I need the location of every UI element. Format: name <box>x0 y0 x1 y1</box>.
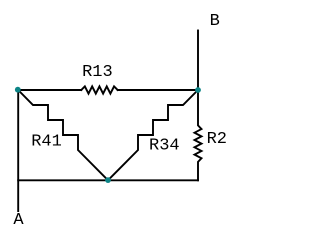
resistor R2 <box>195 90 202 180</box>
node junction dot bottom <box>105 177 111 183</box>
node junction dot right <box>195 87 201 93</box>
svg-text:A: A <box>13 211 24 230</box>
node junction dot left <box>15 87 21 93</box>
resistor R41 <box>18 90 108 180</box>
svg-text:R41: R41 <box>31 133 62 152</box>
svg-text:B: B <box>210 12 220 31</box>
svg-text:R34: R34 <box>149 137 180 156</box>
wire top left (node A1 to R13) <box>18 89 81 91</box>
wire top right (R13 to node B1) <box>118 89 198 91</box>
resistor R34 <box>108 90 198 180</box>
resistor R13 <box>81 86 118 93</box>
wire bottom <box>18 179 198 181</box>
wire terminal A vertical <box>17 90 19 211</box>
svg-text:R2: R2 <box>207 130 227 149</box>
wire terminal B vertical <box>197 31 199 91</box>
svg-text:R13: R13 <box>82 63 113 82</box>
